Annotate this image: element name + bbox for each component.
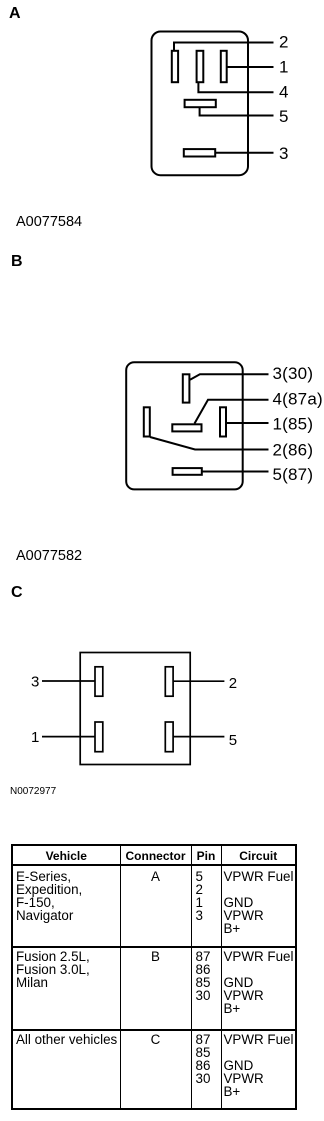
svg-text:4: 4	[279, 83, 289, 102]
svg-text:5(87): 5(87)	[273, 465, 314, 484]
svg-text:3: 3	[279, 144, 289, 163]
svg-text:4(87a): 4(87a)	[273, 390, 323, 409]
svg-text:5: 5	[229, 732, 237, 749]
svg-text:1: 1	[31, 729, 39, 746]
svg-text:3(30): 3(30)	[273, 364, 314, 383]
svg-text:2: 2	[229, 675, 237, 692]
svg-text:1(85): 1(85)	[273, 414, 314, 433]
svg-text:5: 5	[279, 107, 289, 126]
svg-text:1: 1	[279, 58, 289, 77]
svg-text:2(86): 2(86)	[273, 440, 314, 459]
svg-text:3: 3	[31, 674, 39, 691]
svg-text:2: 2	[279, 33, 289, 52]
